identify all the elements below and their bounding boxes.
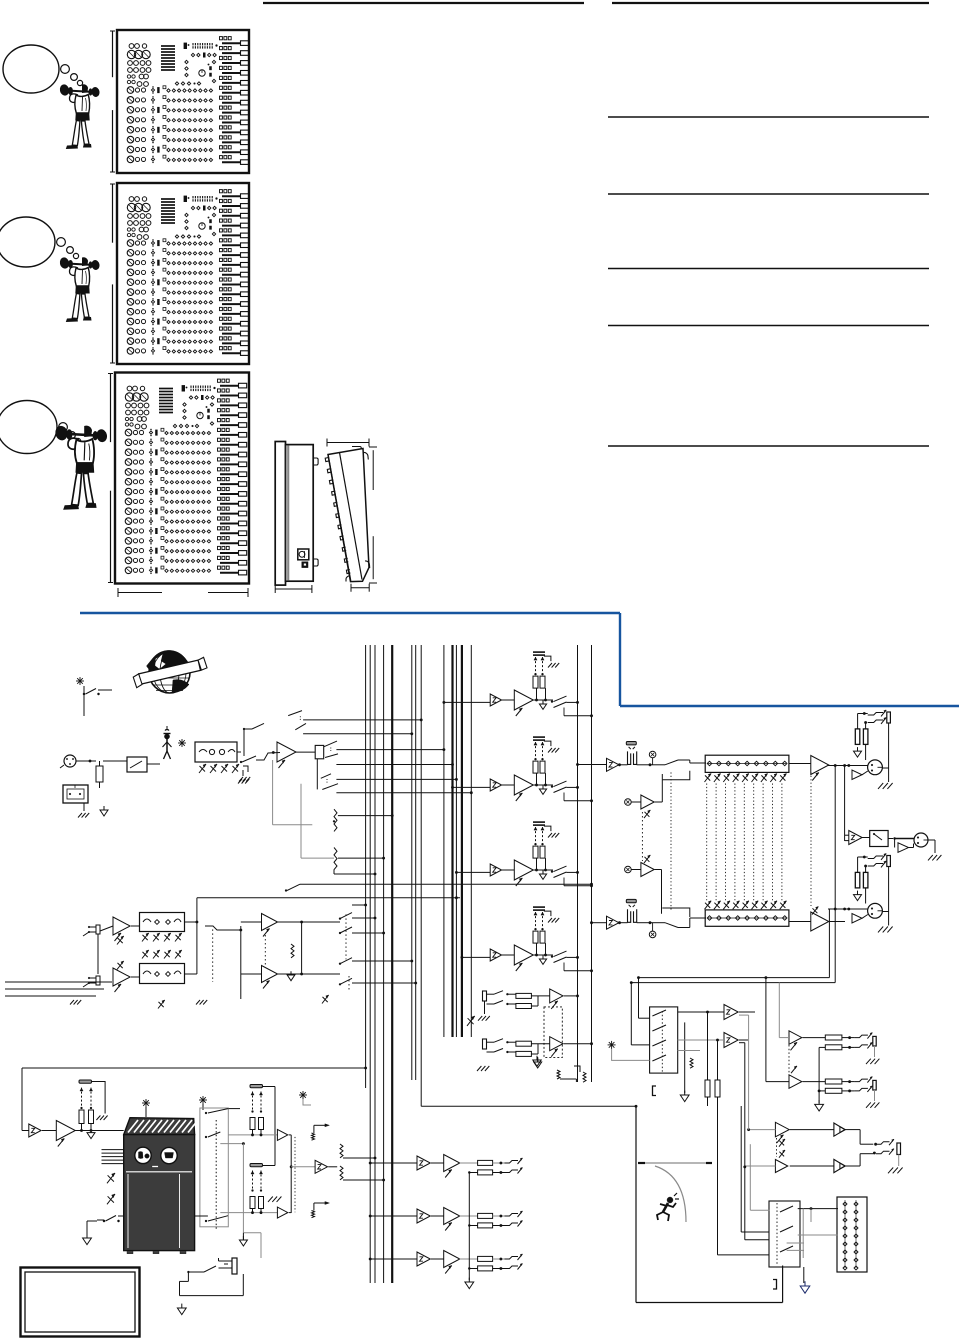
- wire: [789, 764, 811, 922]
- resistor R11: [507, 993, 549, 998]
- LED L4: [199, 1096, 207, 1110]
- wire: [352, 982, 417, 985]
- wire: [352, 904, 367, 907]
- talkback sum amp A6: [22, 1124, 41, 1137]
- transformer T1: [195, 742, 237, 762]
- monitor sum amp A8: [315, 1160, 327, 1173]
- earth: [87, 1129, 95, 1139]
- blue section rule corner: [619, 613, 621, 706]
- ground: [478, 1001, 490, 1021]
- switch S8: [205, 1132, 220, 1138]
- monitor speaker cabinet: [124, 1118, 198, 1254]
- matrix block U4: [837, 1197, 867, 1272]
- EQ out amp A2: [811, 756, 829, 781]
- wire: [630, 981, 835, 984]
- ground: [239, 770, 250, 782]
- earth: [239, 1233, 247, 1246]
- mono output block: [845, 831, 942, 861]
- wire: [678, 1012, 724, 1051]
- mixer panel 1 (front view, small model): [110, 30, 249, 173]
- bus amp row 2: [369, 1208, 523, 1231]
- text column rule 3: [608, 268, 929, 270]
- connector XLR J1: [60, 755, 76, 768]
- amp A4: [262, 914, 278, 937]
- bus amp row 1: [369, 1155, 523, 1178]
- resistor R9: [690, 1058, 693, 1068]
- line output jack J3: [219, 1258, 238, 1274]
- mix bus lines group A: [366, 645, 422, 1080]
- earth: [680, 1022, 689, 1101]
- wire: [243, 1233, 261, 1258]
- dimension under rear view: [275, 585, 312, 593]
- wire: [745, 1166, 770, 1240]
- wire: [196, 898, 199, 974]
- pot P1 row: [199, 764, 239, 773]
- wire: [750, 1144, 769, 1210]
- talk mic figure: [163, 730, 172, 759]
- wire: [803, 1267, 805, 1283]
- gain link box: [544, 1007, 562, 1058]
- earth: [177, 1304, 186, 1315]
- talkback amp A12: [56, 1121, 75, 1147]
- text column rule 2: [608, 193, 929, 195]
- talkback level fader: [79, 1080, 94, 1131]
- wire: [336, 763, 454, 766]
- earth: [815, 1100, 824, 1111]
- wire: [295, 751, 315, 753]
- earth: [534, 1057, 542, 1068]
- wire: [220, 1211, 277, 1214]
- bus tail pot: [574, 1066, 586, 1082]
- switch S5a: [243, 723, 264, 730]
- ground: [78, 813, 89, 818]
- text column rule 4: [608, 325, 929, 327]
- wire: [352, 917, 376, 920]
- wire: [739, 1015, 749, 1130]
- wire: [83, 694, 85, 716]
- relay box outline: [200, 1108, 228, 1227]
- ground: [238, 766, 249, 784]
- wire: [243, 729, 245, 756]
- aux master amp M2: [607, 899, 679, 937]
- resistor R17: [312, 1211, 315, 1218]
- text column rule 1: [608, 116, 929, 118]
- wire: [352, 960, 413, 963]
- switch S9: [205, 1216, 228, 1222]
- studio output block: [828, 854, 893, 933]
- tape amp A10: [550, 989, 563, 1009]
- wire: [678, 760, 706, 763]
- wire: [844, 766, 846, 842]
- tape input jack J5: [483, 1039, 509, 1053]
- EQ out amp A3: [811, 907, 829, 932]
- monitor fader pair F2: [250, 1085, 264, 1135]
- switch S6: [97, 1216, 124, 1223]
- wire: [352, 932, 385, 935]
- wire: [294, 1137, 296, 1212]
- thought bubble and weightlifter 3: [0, 401, 108, 510]
- wire: [22, 1067, 367, 1131]
- monitor source switch SW4: [650, 1007, 678, 1073]
- switch S7: [205, 1109, 228, 1115]
- wire: [228, 1134, 277, 1137]
- pot P3: [107, 1173, 115, 1204]
- LED L2: [178, 739, 186, 747]
- switch S4: [295, 723, 413, 735]
- wire: [239, 926, 242, 999]
- exit curve: [655, 1166, 686, 1222]
- text column rule 5: [608, 445, 929, 447]
- wire: [5, 982, 112, 996]
- wire: [834, 766, 836, 983]
- wire: [829, 765, 845, 767]
- mixer panel 3 (front view, large model): [108, 373, 249, 584]
- wire: [708, 1097, 718, 1106]
- LED L5: [608, 1041, 650, 1061]
- amp A9: [277, 1207, 287, 1218]
- switch S1: [83, 686, 112, 695]
- ground: [196, 1000, 207, 1005]
- wire: [798, 1234, 838, 1236]
- wire: [291, 1166, 315, 1168]
- pot P2: [158, 995, 329, 1009]
- wire: [662, 908, 690, 917]
- earth: [83, 1234, 92, 1245]
- wire: [273, 760, 313, 825]
- wire: [83, 803, 85, 811]
- aux master amp M1: [607, 742, 679, 772]
- headphone output section: [775, 1122, 902, 1173]
- power switch block SW5: [769, 1201, 800, 1267]
- dimension around side view: [327, 439, 377, 592]
- LED L1: [76, 677, 84, 685]
- tape output jack J4: [483, 991, 509, 1005]
- EQ bypass amp B1: [625, 780, 663, 818]
- ground: [268, 1197, 281, 1202]
- amp A7: [277, 1129, 287, 1140]
- blue section rule left: [80, 612, 620, 614]
- ground: [92, 1082, 108, 1121]
- mute wire: [263, 1087, 276, 1166]
- mixer panel 2 (front view, mid model): [110, 183, 249, 364]
- wire: [662, 771, 690, 780]
- phones fader pair F3: [250, 1164, 264, 1213]
- pan pot R2: [334, 848, 385, 876]
- resistor R12: [507, 996, 538, 1009]
- wire: [180, 1272, 244, 1296]
- wire: [739, 1043, 745, 1166]
- channel strip 3 (sum amp, fader, mute switch): [455, 822, 593, 887]
- wire: [103, 761, 160, 764]
- sub bus lines group B: [444, 645, 471, 1037]
- resistor R6: [340, 1144, 360, 1158]
- sum amp U2: [724, 1005, 738, 1020]
- ground: [477, 1066, 489, 1071]
- squelch resistor R15: [557, 1070, 576, 1082]
- mix bus lines group A lower: [370, 1080, 392, 1283]
- wire: [564, 995, 579, 998]
- wire: [264, 935, 266, 965]
- wire: [336, 748, 445, 751]
- wire: [636, 1106, 783, 1303]
- wire: [212, 929, 214, 982]
- wire: [739, 1012, 755, 1040]
- wire: [365, 1080, 367, 1088]
- wire: [301, 784, 334, 858]
- amp A5: [262, 966, 278, 989]
- wire: [197, 896, 460, 899]
- EQ bypass amp B2: [625, 855, 662, 908]
- wire: [360, 1157, 385, 1182]
- blue section rule right: [620, 705, 959, 707]
- pan pot R1: [333, 809, 394, 831]
- wire: [468, 1173, 470, 1281]
- exit corner line: [638, 1162, 712, 1164]
- channel strip 1 (sum amp, fader, mute switch): [443, 652, 593, 717]
- fuse F1: [96, 761, 103, 788]
- resistor R4: [291, 944, 294, 958]
- wire: [220, 1142, 245, 1233]
- thought bubble and weightlifter 1: [3, 45, 100, 149]
- thought bubble and weightlifter 2: [0, 217, 100, 322]
- dimension line under panel 3: [118, 588, 248, 597]
- earth: [100, 806, 108, 816]
- wire: [641, 812, 643, 861]
- wire: [631, 983, 649, 1045]
- wire: [76, 1129, 124, 1132]
- earth: [800, 1281, 810, 1293]
- pot P4: [467, 1016, 475, 1026]
- page header rule right: [612, 2, 929, 4]
- channel strip 2 (sum amp, fader, mute switch): [451, 737, 593, 802]
- mixer rear side view: [275, 442, 318, 586]
- switch S11: [314, 1202, 330, 1211]
- ground: [70, 1000, 81, 1005]
- wire: [564, 1042, 593, 1045]
- wire: [215, 1120, 217, 1229]
- graphic EQ matrix U1: [671, 755, 811, 926]
- resistor R7: [340, 1166, 360, 1180]
- routing switch group SW1a: [315, 741, 338, 759]
- resistor R13: [507, 1041, 549, 1046]
- running man icon: [657, 1193, 679, 1221]
- wire: [167, 726, 241, 752]
- LED L6: [299, 1091, 311, 1105]
- wire: [336, 791, 472, 794]
- wire: [87, 1221, 97, 1237]
- input select switch: [240, 751, 280, 763]
- wire: [706, 1011, 719, 1080]
- wire: [336, 778, 457, 781]
- bracket left: [653, 1086, 657, 1096]
- earth: [465, 1278, 474, 1289]
- wire: [639, 978, 650, 1019]
- wire: [301, 922, 303, 974]
- control room output block: [828, 710, 893, 789]
- earth: [533, 1056, 541, 1067]
- switch S6b: [285, 883, 593, 892]
- earth: [287, 971, 295, 981]
- aux return pair 2 (amps, resistors, jacks): [803, 1077, 880, 1108]
- wire: [241, 922, 262, 974]
- aux return pair 1 (amps, resistors, jacks): [789, 1031, 879, 1089]
- routing switch block SW3: [339, 913, 352, 990]
- wire: [278, 921, 340, 976]
- amp A1: [277, 742, 296, 768]
- mixer side profile view: [325, 447, 370, 582]
- bus amp row 3: [369, 1251, 523, 1274]
- wire: [818, 1047, 820, 1103]
- wire: [421, 1080, 637, 1108]
- wire: [787, 1209, 804, 1258]
- resistor R10: [705, 1080, 720, 1097]
- wire: [328, 1166, 337, 1168]
- stereo input channel (jacks, EQ): [83, 913, 197, 993]
- wire: [798, 1207, 838, 1222]
- globe logo: [132, 650, 207, 693]
- switch S12: [187, 1266, 216, 1273]
- wire: [205, 926, 241, 930]
- routing switch group SW1b: [317, 759, 338, 790]
- info box: [21, 1268, 140, 1337]
- wire: [76, 760, 96, 763]
- tape amp A11: [550, 1037, 563, 1057]
- switch S2 box: [127, 757, 147, 772]
- LED L3: [142, 1099, 150, 1117]
- channel strip 4 (sum amp, fader, mute switch): [461, 907, 593, 972]
- switch S3: [288, 711, 422, 722]
- wire: [741, 1106, 769, 1232]
- wire: [195, 1109, 240, 1216]
- speaker wires: [102, 1150, 124, 1164]
- resistor R16: [312, 1133, 315, 1140]
- wire: [637, 909, 829, 979]
- wire: [765, 976, 790, 1081]
- wire: [42, 1130, 56, 1132]
- aux bus lines: [578, 645, 592, 1082]
- resistor R14: [507, 1044, 538, 1057]
- wire: [743, 1166, 775, 1169]
- page header rule left: [263, 2, 584, 4]
- IEC connector J2: [63, 785, 88, 803]
- wire: [718, 1106, 770, 1255]
- wire: [779, 983, 789, 1038]
- switch S10: [314, 1124, 330, 1133]
- wire: [747, 1128, 775, 1131]
- bracket right: [773, 1280, 777, 1290]
- sum amp U3: [724, 1033, 738, 1048]
- wire: [678, 918, 706, 928]
- wire: [829, 921, 845, 923]
- wire: [289, 1135, 293, 1213]
- wire: [576, 763, 606, 924]
